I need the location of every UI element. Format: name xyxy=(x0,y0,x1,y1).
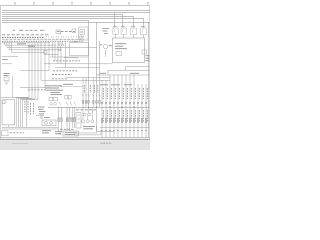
fanout wire W1 xyxy=(3,42,51,43)
node label text xyxy=(17,44,35,46)
legend title text xyxy=(60,128,74,130)
bottom-left label xyxy=(10,132,24,134)
connector strip text below xyxy=(2,40,84,42)
wire B10 xyxy=(137,84,139,138)
sensor S1 body xyxy=(4,77,9,84)
wire A3 xyxy=(92,78,94,108)
wire B2 xyxy=(105,80,107,138)
wire vertical x26.5 xyxy=(26,97,28,127)
lamp L1 xyxy=(83,113,86,116)
wire vertical x55 xyxy=(54,42,56,61)
harness comb A xyxy=(83,78,93,108)
rail wire y127.5 xyxy=(100,127,149,129)
wire bus line 6 xyxy=(2,19,89,21)
wire label column left xyxy=(25,101,34,115)
lamp L5 xyxy=(91,120,94,123)
component label block mid-left xyxy=(45,86,63,95)
relay block K5 xyxy=(42,120,56,126)
comb C wires xyxy=(59,107,75,131)
wire B8 xyxy=(129,75,131,138)
connector strip pin row xyxy=(2,38,84,40)
fanout wire W5 xyxy=(11,42,45,52)
wire B11 xyxy=(141,84,143,138)
wire bus line 1 xyxy=(2,9,150,11)
wire B4 xyxy=(113,75,115,138)
comb B bottom labels xyxy=(101,130,148,132)
wire link y118 xyxy=(69,117,76,119)
diode pair D2 xyxy=(65,95,71,99)
net name label xyxy=(130,72,139,74)
junction box J2 xyxy=(44,50,47,53)
wire relay outputs xyxy=(116,34,144,38)
wire A1 xyxy=(82,78,84,108)
wire horizontal y115.3 xyxy=(36,114,44,116)
ground label text xyxy=(28,89,47,91)
wire bus line 7 xyxy=(2,21,150,23)
wire bus line 4 xyxy=(2,15,134,17)
comb A pin symbols xyxy=(82,95,100,104)
comb B wire labels lower xyxy=(103,110,147,122)
junction block J/B left xyxy=(2,100,15,125)
wire C3 xyxy=(66,107,68,131)
coil symbol K6 xyxy=(40,116,42,118)
wire B7 xyxy=(125,75,127,138)
wire B3 xyxy=(109,75,111,138)
wire vertical trunk B xyxy=(96,22,98,107)
wire vertical x58 xyxy=(57,42,59,64)
wire horizontal y133 xyxy=(74,126,97,133)
lamp wires xyxy=(83,107,97,126)
connector strip text above xyxy=(2,36,44,38)
U1 internal relay box xyxy=(116,52,122,56)
wire A2 xyxy=(85,78,87,108)
comb B connector symbols xyxy=(101,119,147,123)
wire horizontal y54.4 xyxy=(44,53,58,55)
lamp L2 xyxy=(88,113,91,116)
wire bus line 2 xyxy=(2,11,150,13)
bundle jog wires xyxy=(16,97,38,127)
relay R1 xyxy=(113,28,119,34)
comb A wire labels xyxy=(84,85,98,93)
wire B1 xyxy=(101,80,103,138)
wire horizontal y80 xyxy=(41,79,110,81)
wire below U2 xyxy=(64,57,78,59)
wire left exit xyxy=(1,97,29,99)
small box bottom-left xyxy=(2,131,9,136)
wire label row 4 xyxy=(52,78,68,80)
note text block mid xyxy=(76,109,96,111)
bottom label row 2 xyxy=(42,130,51,132)
U1 internal labels xyxy=(115,44,127,49)
net name label 2 xyxy=(100,72,106,74)
comb B header labels xyxy=(100,84,132,86)
U2 top label xyxy=(74,41,78,43)
wire right horizontal 2 xyxy=(108,69,149,71)
frame (decorative border) xyxy=(0,6,150,140)
wire right horizontal 1 xyxy=(126,66,150,68)
rail wire y107 xyxy=(48,106,149,108)
wire vertical x45 xyxy=(44,42,46,88)
wire mid horizontal 4 xyxy=(44,63,113,65)
diode block D1 xyxy=(58,47,61,50)
wire horizontal y131.3 xyxy=(97,126,115,131)
wire vertical trunk C xyxy=(98,41,100,107)
connector boxes mid-left xyxy=(49,97,57,101)
fuse box F1 xyxy=(79,27,89,40)
left column label xyxy=(2,59,8,61)
wire C6 xyxy=(74,107,76,128)
relay R2 xyxy=(121,28,127,34)
connector tick row upper xyxy=(46,36,84,38)
fanout wire W3 xyxy=(7,42,97,48)
motor label xyxy=(100,44,112,47)
contact symbols xyxy=(66,102,76,106)
label text row upper xyxy=(13,30,75,31)
wire B12 xyxy=(145,84,147,138)
lamp labels xyxy=(83,127,95,129)
vertical bundle wires left xyxy=(29,42,38,100)
wire C2 xyxy=(60,107,62,131)
rail junction dots xyxy=(88,107,135,108)
wire B5 xyxy=(117,75,119,138)
wire drop to relay R3 xyxy=(133,16,135,28)
footer label left xyxy=(12,143,28,145)
wire horizontal y134.9 xyxy=(74,131,101,135)
junction box J1 xyxy=(56,29,76,34)
wire mid horizontal 1 xyxy=(2,56,18,58)
terminal circle T2 xyxy=(62,44,64,46)
legend side text xyxy=(55,132,62,134)
switch symbols row xyxy=(50,102,61,105)
coil K6 label xyxy=(44,117,50,119)
wire vertical x12.8 xyxy=(12,76,14,98)
fuse value label xyxy=(103,29,110,34)
U1 side connector xyxy=(142,50,147,54)
wire drop to relay R1 xyxy=(114,12,116,28)
U1 side labels xyxy=(146,56,150,61)
wire vertical x49 xyxy=(48,42,50,71)
comb B pin symbols xyxy=(101,102,147,104)
sensor S1 stack xyxy=(4,74,10,76)
sub-unit box U2 xyxy=(70,42,89,55)
comb B wire labels upper xyxy=(103,88,147,99)
wire B9 xyxy=(133,75,135,138)
lamp L3 xyxy=(82,120,85,123)
relay labels xyxy=(113,25,145,27)
wire vertical x52.4 xyxy=(51,42,53,57)
wire bus line 5 xyxy=(2,17,144,19)
wire bus line 3 xyxy=(2,13,123,15)
rail wire left double lower xyxy=(2,128,58,130)
relay R4 xyxy=(141,28,147,35)
wire right corner 2 xyxy=(107,70,109,75)
wire horizontal y87.7 xyxy=(20,87,50,89)
wire vertical trunk A xyxy=(88,20,90,107)
wire vertical x41 xyxy=(40,42,42,81)
label text block x38 xyxy=(38,107,46,114)
wire mid horizontal 2 xyxy=(50,56,89,58)
wire drop to relay R4 xyxy=(143,18,145,28)
wire label row 1 xyxy=(53,60,80,62)
wire C4 xyxy=(68,107,70,131)
wire mid horizontal 5 xyxy=(55,67,99,69)
label text row lower xyxy=(2,34,50,36)
legend box bottom xyxy=(63,131,79,136)
wire label row 2 xyxy=(53,70,78,72)
wire label row 3 xyxy=(52,74,72,76)
wire mid horizontal 3 xyxy=(2,63,12,65)
ground G1 xyxy=(58,132,63,135)
relay R3 xyxy=(131,28,137,35)
component title label xyxy=(63,83,73,85)
wire corner y86.7 xyxy=(60,86,83,88)
fanout wire W4 xyxy=(9,42,61,50)
wire C1 xyxy=(58,107,60,131)
narrow box N1 xyxy=(76,113,81,128)
rail wire left double upper xyxy=(2,126,58,128)
wire right corner 1 xyxy=(125,67,127,71)
fanout wire W2 xyxy=(5,42,56,45)
wire horizontal y77.6 xyxy=(66,77,110,79)
component pigtail wires xyxy=(59,42,65,68)
page footer label xyxy=(101,142,113,144)
wire B6 xyxy=(121,75,123,138)
big control unit U1 xyxy=(113,38,145,63)
terminal circle T1 xyxy=(58,44,60,46)
harness comb B xyxy=(102,75,146,138)
wire drop to relay R2 xyxy=(122,14,124,28)
lamp L4 xyxy=(86,120,89,123)
J/B output wire xyxy=(8,125,10,127)
motor M1 xyxy=(103,44,107,57)
comb C connector symbols xyxy=(58,118,76,122)
wire right edge trunk xyxy=(147,22,149,137)
wire mid horizontal 6 xyxy=(20,70,49,72)
wire C5 xyxy=(71,107,73,128)
wire right horizontal 3 xyxy=(97,74,150,76)
